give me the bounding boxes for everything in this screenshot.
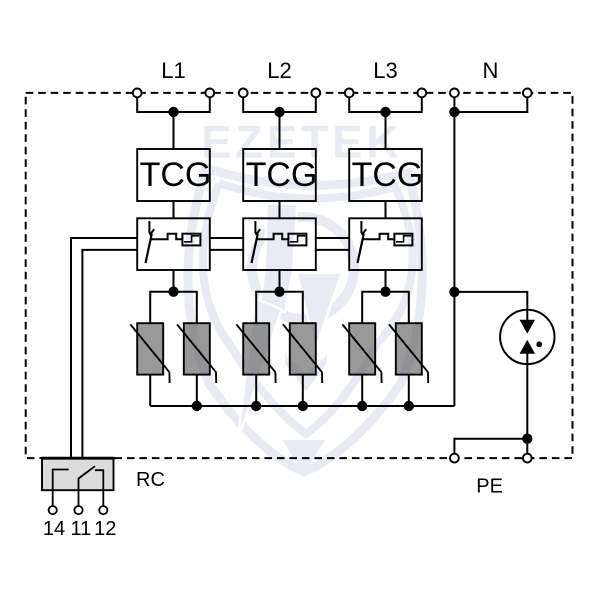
contact 12: [95, 470, 103, 506]
varistor L3b: [389, 323, 428, 406]
junction N: [449, 107, 459, 117]
wire disconnector to varistor junction: [385, 270, 387, 292]
junction varistor top L1: [168, 287, 178, 297]
junction L2: [274, 107, 284, 117]
wire junction to TCG: [385, 112, 387, 149]
contact blade 11: [79, 466, 96, 506]
svg-text:RC: RC: [136, 469, 165, 491]
phase L1 column: [130, 58, 216, 406]
junction bus x=256: [251, 401, 261, 411]
thermal disconnector with indicator, phase L3: [349, 218, 422, 270]
junction varistor top L2: [274, 287, 284, 297]
wire N vertical: [453, 112, 455, 406]
svg-text:L2: L2: [267, 58, 291, 83]
spark-gap module TCG L3: [349, 149, 422, 201]
varistor L3a: [342, 323, 381, 406]
wire TCG to disconnector: [279, 201, 281, 218]
svg-text:12: 12: [94, 518, 116, 540]
junction bus x=362: [357, 401, 367, 411]
wire varistor bottom bus to N: [150, 405, 454, 407]
junction bus x=409: [404, 401, 414, 411]
remote contact RC box: [41, 458, 115, 506]
svg-text:PE: PE: [476, 476, 503, 498]
terminal L3a: [345, 89, 354, 98]
junction varistor top L3: [380, 287, 390, 297]
wire L2 terminal drops: [243, 96, 316, 112]
wire junction to TCG: [279, 112, 281, 149]
varistor L2b: [283, 323, 322, 406]
spark-gap module TCG L1: [137, 149, 210, 201]
terminal PEb: [523, 454, 532, 463]
wire varistor goalpost: [362, 292, 409, 324]
wire junction to TCG: [173, 112, 175, 149]
wire TCG to disconnector: [173, 201, 175, 218]
terminal 14: [49, 506, 57, 514]
spark-gap module TCG L2: [243, 149, 316, 201]
enclosure dashed border: [26, 93, 573, 458]
contact 14: [53, 470, 69, 507]
thermal disconnector with indicator, phase L2: [243, 218, 316, 270]
phase L2 column: [236, 58, 322, 406]
svg-text:L1: L1: [161, 58, 185, 83]
junction L1: [168, 107, 178, 117]
terminal 12: [99, 506, 107, 514]
varistor L1a: [130, 323, 169, 406]
svg-text:TCG: TCG: [352, 156, 424, 194]
node N terminals: [454, 96, 527, 112]
svg-text:14: 14: [43, 518, 65, 540]
terminal 11: [74, 506, 82, 514]
varistor L2a: [236, 323, 275, 406]
svg-text:TCG: TCG: [246, 156, 318, 194]
terminal L1a: [133, 89, 142, 98]
terminal L2b: [311, 89, 320, 98]
thermal disconnector with indicator, phase L1: [137, 218, 210, 270]
wire lower monitor bus: [82, 250, 349, 458]
junction N-GDT tap: [449, 287, 459, 297]
wire varistor goalpost: [150, 292, 197, 324]
svg-text:L3: L3: [373, 58, 397, 83]
junction L3: [380, 107, 390, 117]
svg-text:11: 11: [71, 518, 92, 540]
wire TCG to disconnector: [385, 201, 387, 218]
wire disconnector to varistor junction: [279, 270, 281, 292]
junction GDT bottom: [522, 434, 532, 444]
terminal L3b: [417, 89, 426, 98]
terminal PEa: [450, 454, 459, 463]
terminal Nb: [523, 89, 532, 98]
phase L3 column: [342, 58, 428, 406]
terminal L1b: [205, 89, 214, 98]
wire GDT to PE terminals: [454, 353, 527, 454]
terminal Na: [450, 89, 459, 98]
wire L1 terminal drops: [137, 96, 210, 112]
wire N to GDT: [454, 292, 527, 320]
svg-text:TCG: TCG: [140, 156, 212, 194]
gas discharge tube N-PE: [500, 310, 554, 364]
junction bus x=303: [298, 401, 308, 411]
watermark EZETEK logo: [188, 117, 422, 475]
wire varistor goalpost: [256, 292, 303, 324]
junction bus x=197: [192, 401, 202, 411]
terminal L2a: [239, 89, 248, 98]
wire upper monitor bus: [71, 238, 349, 458]
svg-text:N: N: [483, 58, 499, 83]
wire disconnector to varistor junction: [173, 270, 175, 292]
varistor L1b: [177, 323, 216, 406]
wire L3 terminal drops: [349, 96, 422, 112]
